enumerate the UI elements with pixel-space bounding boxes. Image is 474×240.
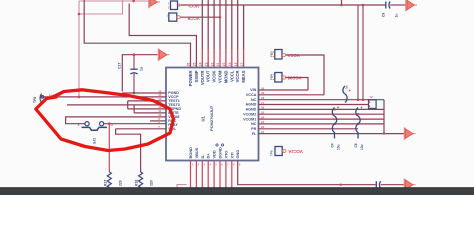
U1 option pads — [216, 144, 218, 146]
svg-text:220: 220 — [118, 180, 122, 186]
svg-text:C9: C9 — [381, 13, 385, 17]
junction rail y=5 at x=341.5 — [340, 4, 343, 7]
capacitor C9 in series on rail — [385, 2, 387, 9]
wire right row5 — [259, 108, 385, 110]
svg-text:PR: PR — [251, 127, 256, 131]
resistor R18 — [139, 172, 143, 188]
svg-text:VCC2A: VCC2A — [288, 149, 303, 154]
capacitor C17 — [133, 55, 135, 69]
svg-text:SJ1: SJ1 — [93, 138, 97, 144]
svg-text:VCOM: VCOM — [218, 70, 223, 83]
svg-text:VBUS: VBUS — [194, 147, 199, 158]
ferrite bead FB3 — [275, 50, 282, 60]
svg-text:1u: 1u — [395, 14, 399, 18]
capacitor C10 block — [369, 100, 377, 109]
wire left row7 U-bend to jumper — [66, 117, 166, 124]
svg-text:VOUT: VOUT — [206, 70, 211, 82]
wire XTI pin to bottom-right arrow — [238, 161, 376, 185]
ferrite bead FB1 — [171, 1, 178, 10]
svg-text:VOUTR: VOUTR — [200, 71, 205, 86]
ferrite bead FB4 — [275, 73, 282, 83]
svg-text:POWER: POWER — [188, 71, 193, 87]
svg-text:VCCL: VCCL — [229, 70, 234, 82]
U1 top pin 10 to rail — [243, 5, 245, 49]
svg-text:12: 12 — [370, 95, 374, 99]
svg-text:19: 19 — [228, 62, 232, 66]
wire power rail y=5 across top — [180, 4, 386, 6]
svg-text:25: 25 — [193, 62, 197, 66]
junction on top rail — [132, 0, 135, 2]
svg-text:VCCL: VCCL — [187, 4, 199, 9]
svg-text:XTO: XTO — [223, 151, 228, 159]
svg-text:10u: 10u — [337, 144, 341, 150]
wire corner x=122.5 / y=14 — [79, 0, 123, 14]
capacitor C4 wavy — [332, 108, 336, 139]
svg-text:TP5: TP5 — [270, 150, 274, 156]
wire x=358 from rail down to caps — [357, 5, 359, 100]
svg-text:21: 21 — [216, 62, 220, 66]
svg-text:26: 26 — [187, 62, 191, 66]
svg-text:D-: D- — [200, 154, 205, 159]
svg-text:VCCA: VCCA — [246, 93, 257, 97]
svg-text:XTI: XTI — [229, 152, 234, 158]
wire right bus x=384 — [383, 100, 385, 134]
wire vertical x=79 down to VCCA row — [78, 1, 80, 97]
svg-text:1u: 1u — [345, 85, 349, 89]
svg-text:C4: C4 — [331, 143, 335, 147]
svg-text:U1: U1 — [201, 115, 206, 121]
wire right row8 — [259, 123, 385, 125]
svg-text:VCOM1: VCOM1 — [243, 117, 256, 121]
svg-text:D+: D+ — [206, 153, 211, 159]
svg-text:2: 2 — [78, 122, 80, 126]
wire small step left of pins — [177, 185, 187, 188]
ferrite bead FB2 — [169, 13, 177, 21]
svg-text:GND: GND — [235, 150, 240, 159]
svg-text:VCOK: VCOK — [212, 71, 217, 83]
svg-text:TP8: TP8 — [33, 97, 37, 103]
U1 top pin stubs — [201, 0, 203, 49]
svg-text:VDD: VDD — [212, 150, 217, 158]
wire right row7 — [259, 118, 385, 120]
svg-text:20: 20 — [222, 62, 226, 66]
svg-text:MEAS: MEAS — [241, 70, 246, 82]
svg-text:FB3: FB3 — [269, 51, 273, 57]
svg-text:R18: R18 — [135, 180, 139, 186]
dark bottom bar — [0, 187, 474, 195]
wire right row10 to arrow — [259, 133, 405, 135]
wire top rail y=1 net VBUS — [79, 0, 150, 2]
junction at x=79 y=14 — [78, 13, 81, 16]
wire net VCCA row with junction — [40, 96, 166, 98]
test point TP5 block — [275, 147, 282, 156]
wire FB2 to pin x=220 — [180, 16, 220, 18]
wire rail to arrow top-right — [390, 4, 406, 6]
IC U1 PCM2704 body — [166, 68, 259, 161]
wire rail VCCPA y=54.7 — [122, 55, 157, 92]
svg-text:23: 23 — [204, 62, 208, 66]
svg-text:FL: FL — [252, 132, 257, 136]
junction C17 top — [133, 53, 136, 56]
svg-text:17: 17 — [240, 62, 244, 66]
wire FB4 to row1 — [286, 78, 308, 91]
wire right row6 — [259, 113, 385, 115]
svg-text:1: 1 — [111, 122, 113, 126]
U1 bottom pin stubs to bus bar — [190, 161, 192, 188]
wire rail y=35.5 to pin 2 — [129, 4, 196, 68]
wire jumper to chip row9 — [104, 123, 166, 125]
svg-text:PCM2704JUT: PCM2704JUT — [209, 105, 214, 131]
off-page arrow mid-right — [404, 127, 406, 139]
capacitor C11 series bottom — [375, 181, 377, 188]
wire x=363 from rail down — [362, 5, 364, 100]
svg-text:AGND: AGND — [245, 108, 256, 112]
svg-text:VCCR: VCCR — [235, 71, 240, 83]
svg-text:R17: R17 — [103, 180, 107, 186]
svg-text:220: 220 — [150, 180, 154, 186]
svg-text:24: 24 — [199, 62, 203, 66]
junction to R17 — [108, 122, 111, 125]
wire left row6 + corner — [134, 112, 166, 114]
wire rail y=43 to pin 1 — [84, 0, 190, 68]
off-page arrow top-right — [405, 0, 407, 11]
resistor R17 — [107, 172, 111, 188]
svg-text:C8: C8 — [354, 143, 358, 147]
svg-text:C17: C17 — [118, 63, 122, 69]
wire right row3 — [259, 99, 385, 101]
svg-text:10u: 10u — [360, 144, 364, 150]
svg-text:22: 22 — [210, 62, 214, 66]
svg-text:DGND: DGND — [218, 147, 223, 159]
capacitor C8 wavy — [356, 108, 360, 139]
solder jumper SJ1 — [85, 122, 89, 126]
wire right row9 — [259, 128, 359, 130]
wire left row10 stub — [116, 128, 166, 130]
svg-text:SSMP: SSMP — [194, 70, 199, 82]
svg-text:BGND: BGND — [188, 147, 193, 159]
off-page arrow top-left — [148, 0, 150, 8]
wire FB3 to row2 — [286, 55, 324, 95]
svg-text:NC: NC — [251, 98, 257, 102]
junction C17 bottom — [133, 92, 136, 95]
red annotation loop — [36, 90, 174, 151]
wire to resistor R17 — [108, 124, 110, 172]
wire left row5 + corner — [128, 108, 166, 110]
capacitor C6 wavy — [343, 86, 347, 103]
wire left row3 — [128, 100, 166, 102]
wire left row1 PGND — [122, 92, 166, 94]
wire left row8 stub — [150, 120, 166, 122]
svg-text:1u: 1u — [139, 67, 143, 71]
wire left row4 long — [67, 104, 166, 106]
svg-text:MOND: MOND — [223, 71, 228, 84]
svg-text:AGND: AGND — [245, 103, 256, 107]
svg-text:VIN: VIN — [250, 88, 256, 92]
svg-text:VCOM2: VCOM2 — [243, 112, 256, 116]
wire right row4 — [259, 104, 369, 106]
svg-text:18: 18 — [234, 62, 238, 66]
svg-text:VCCR: VCCR — [187, 16, 200, 21]
wire right row2 VCCA — [259, 94, 325, 96]
wire right row1 VIN — [259, 89, 309, 91]
off-page arrow bottom-right — [404, 179, 406, 191]
svg-text:FB4: FB4 — [269, 74, 273, 80]
wire to resistor R18 — [116, 129, 141, 172]
off-page arrow VCCPA — [158, 49, 160, 61]
junction rail y=5 at x=363 — [362, 4, 365, 7]
svg-text:NC: NC — [251, 122, 257, 126]
